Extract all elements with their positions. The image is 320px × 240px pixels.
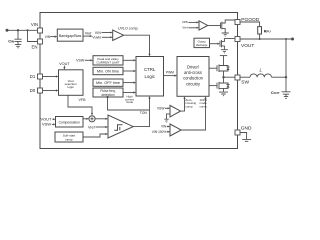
svg-text:COUT: COUT [271,91,280,95]
box soft-start ramp [55,132,83,142]
wire EN tie [27,29,38,41]
wire min ON to CTRL [123,70,136,72]
resistor Rpu [258,27,271,39]
wire D0 to selection logic [43,89,59,91]
svg-text:comp.: comp. [200,104,208,108]
op-amp UVLO comparator [92,26,138,40]
svg-text:circuitry: circuitry [186,81,201,86]
box compensation [40,117,83,128]
ground Q4 source [221,50,228,53]
svg-text:VSW: VSW [76,59,85,63]
wire Vref to error comparator [88,126,108,130]
svg-text:VOUT: VOUT [241,43,254,49]
wire compensation to summing node [83,118,89,120]
ground Cout [284,94,288,98]
svg-text:EN: EN [32,44,38,49]
svg-text:VIN: VIN [45,35,51,39]
svg-text:Vref: Vref [182,26,188,30]
svg-text:Min. OFF time: Min. OFF time [96,81,120,85]
svg-text:TON: TON [140,111,148,115]
pin PGOOD [235,17,260,24]
wire PWM [164,71,178,77]
svg-text:CURRENT LIMIT: CURRENT LIMIT [96,61,119,65]
wire 100% mode output [181,96,206,130]
capacitor Cin [8,29,21,44]
wire input net [7,29,38,31]
svg-text:Output: Output [198,39,206,43]
wire VOUT external [240,38,293,40]
transistor Q3 PGOOD open-drain FET [221,20,236,33]
svg-text:Logic: Logic [144,74,155,79]
pin D1 [30,74,43,79]
label zero-crossing comp [185,98,196,108]
box CTRL logic [136,57,164,97]
box peak and valley current limit [76,56,123,65]
svg-text:Min. ON time: Min. ON time [97,69,119,73]
op-amp PGOOD comparator [182,20,208,30]
wire VFB net [68,95,93,115]
wire gate low side [209,85,217,87]
inductor L [240,67,286,77]
box min OFF time [93,79,123,86]
wire pulse freq to CTRL [123,91,136,93]
pin VIN [31,22,43,33]
svg-text:VOUT: VOUT [59,62,70,66]
svg-text:discharge: discharge [196,43,208,47]
ground GND pin external [240,133,251,142]
svg-text:Vuvlo: Vuvlo [92,36,101,40]
svg-text:VFB: VFB [79,98,87,102]
svg-text:VIN: VIN [31,22,38,27]
wire current limit to CTRL [123,59,136,61]
capacitor Cout [271,77,291,95]
box pulse freq detection [93,88,123,97]
label high current mode [125,94,134,104]
wire VOUT into selection logic [59,62,70,70]
box Vout selection logic [59,70,84,96]
box driver anti-cross conduction [177,57,209,97]
ground Cin [15,45,21,48]
svg-text:Vref: Vref [88,126,96,130]
svg-text:Compensation: Compensation [59,120,80,124]
wire pulse freq to TON net [106,96,149,110]
pin D0 [30,88,43,93]
svg-text:VIN: VIN [95,31,101,35]
wire SW node [222,76,235,78]
svg-text:comp.: comp. [185,104,193,108]
svg-text:CTRL: CTRL [144,67,156,72]
pin VOUT [235,37,254,50]
pin EN [32,39,43,49]
svg-text:UVLO comp.: UVLO comp. [118,26,139,30]
svg-text:VIN: VIN [161,125,167,129]
wire summing to error comparator [95,118,108,120]
svg-text:SW: SW [241,80,249,86]
wire UVLO output to CTRL [124,35,151,56]
svg-text:VSW: VSW [42,122,51,127]
op-amp 100% mode comparator [152,124,181,136]
op-amp error hysteretic comparator [108,115,133,138]
ground Q2 source [219,92,228,96]
wire PGOOD external [240,22,260,27]
svg-text:VFB: VFB [182,20,188,24]
bandgap U1 Bandgap/Bias [45,29,83,41]
transistor Q1 high-side FET [217,56,230,78]
wire zero-crossing output [181,96,186,111]
svg-text:Bandgap/Bias: Bandgap/Bias [59,34,82,38]
ground Q3 source [222,33,229,36]
svg-text:GND: GND [241,126,252,132]
wire VOUT branch down [285,38,287,77]
node L Cout junction [285,76,287,78]
transistor Q2 low-side FET [217,77,230,92]
IC block outline [40,13,238,149]
svg-text:PWM: PWM [166,71,174,75]
label 100% mode comp [200,98,208,108]
power VIN terminal Q1 [220,55,227,57]
box min ON time [93,67,123,74]
wire D1 to selection logic [43,75,59,77]
svg-text:CIN: CIN [8,38,14,43]
svg-text:D0: D0 [30,88,36,93]
node summing junction [89,116,95,122]
svg-text:Driver/: Driver/ [187,64,200,69]
wire discharge to Q4 gate [210,43,221,45]
node input terminal [6,29,9,32]
svg-text:mode: mode [126,100,134,104]
pin SW [235,75,249,86]
wire soft-start to error comparator [83,133,108,137]
svg-text:ramp: ramp [65,137,72,141]
svg-text:anti-cross: anti-cross [184,70,202,75]
wire gate high side [209,67,217,69]
svg-text:Vref: Vref [85,31,93,35]
op-amp zero-crossing comparator [157,105,181,119]
wire Vref out [83,31,92,37]
box output discharge [194,38,210,47]
pin GND [235,126,252,135]
svg-text:RPU: RPU [264,30,271,34]
ground zero-crossing input [164,119,168,122]
svg-text:VIN·100%: VIN·100% [152,130,167,134]
node VOUT terminal [291,38,294,41]
svg-text:VSW: VSW [157,107,165,111]
svg-text:conduction: conduction [183,76,204,81]
svg-text:logic: logic [68,85,75,89]
wire min OFF to CTRL [123,82,136,84]
wire comparator to Q3 gate [208,24,221,26]
svg-text:D1: D1 [30,74,36,79]
transistor Q4 discharge FET [220,39,235,50]
wire TON to CTRL [133,96,150,127]
